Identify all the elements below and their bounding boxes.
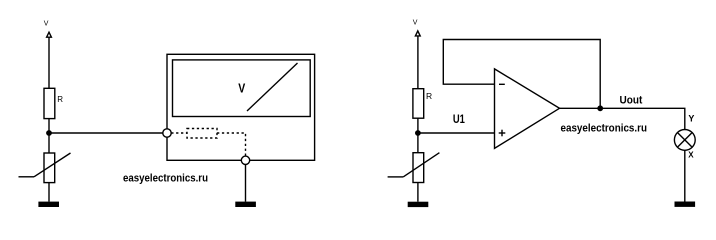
op-amp inverting input marker (minus) (499, 83, 505, 85)
ground (lamp) (675, 202, 696, 207)
voltmeter ground terminal circle (241, 156, 249, 164)
voltmeter scale window (173, 60, 311, 117)
svg-text:V: V (44, 21, 49, 28)
wire: supply arrow to R top (right) (417, 36, 419, 89)
svg-text:Y: Y (688, 114, 694, 124)
wire: thermistor to ground (right) (417, 183, 419, 202)
resistor R (right divider) (413, 89, 424, 119)
node junction dot (right divider) (415, 130, 421, 136)
power arrow symbol (right supply) (415, 31, 420, 36)
wire: op-amp output to lamp (560, 108, 685, 129)
node Uout junction dot (597, 105, 603, 111)
voltmeter outer case (167, 54, 315, 160)
lamp indicator (circle with cross) (674, 130, 695, 151)
dashed wire: input terminal to internal resistor (171, 132, 187, 134)
thermistor (right divider) (388, 153, 440, 183)
op-amp non-inverting input marker (plus) (499, 130, 506, 137)
svg-text:X: X (688, 151, 694, 160)
thermistor (left divider) (19, 153, 71, 183)
svg-text:easyelectronics.ru: easyelectronics.ru (561, 123, 648, 135)
wire: feedback loop output to inverting input (443, 40, 600, 109)
node A junction dot (46, 130, 52, 136)
power arrow symbol (left supply) (47, 32, 52, 37)
internal resistance of voltmeter (dashed resistor) (187, 129, 217, 139)
dashed wire: internal resistor to ground terminal (217, 133, 246, 156)
wire: supply arrow to R top (48, 37, 50, 88)
svg-text:easyelectronics.ru: easyelectronics.ru (123, 173, 208, 185)
ground (voltmeter) (235, 202, 256, 207)
wire: node to op-amp non-inverting input (418, 132, 495, 134)
svg-text:V: V (413, 19, 418, 26)
wire: node A to voltmeter input terminal (49, 132, 163, 134)
resistor R (left divider) (44, 88, 55, 118)
wire: ground terminal to ground symbol (245, 165, 247, 202)
wire: thermistor to ground (left) (48, 183, 50, 202)
op-amp U1 body (495, 69, 560, 148)
svg-text:Uout: Uout (620, 94, 643, 106)
svg-text:R: R (426, 91, 432, 101)
svg-text:U1: U1 (453, 112, 465, 126)
wire: R bottom to node U1 input (417, 118, 419, 153)
voltmeter input terminal circle (163, 129, 171, 137)
ground (right divider) (408, 202, 429, 207)
ground (left divider) (38, 202, 59, 207)
wire: lamp to ground (684, 150, 686, 201)
svg-text:V: V (238, 82, 246, 96)
svg-text:R: R (57, 95, 63, 104)
wire: R bottom to node A (48, 119, 50, 153)
voltmeter needle line (247, 63, 298, 111)
